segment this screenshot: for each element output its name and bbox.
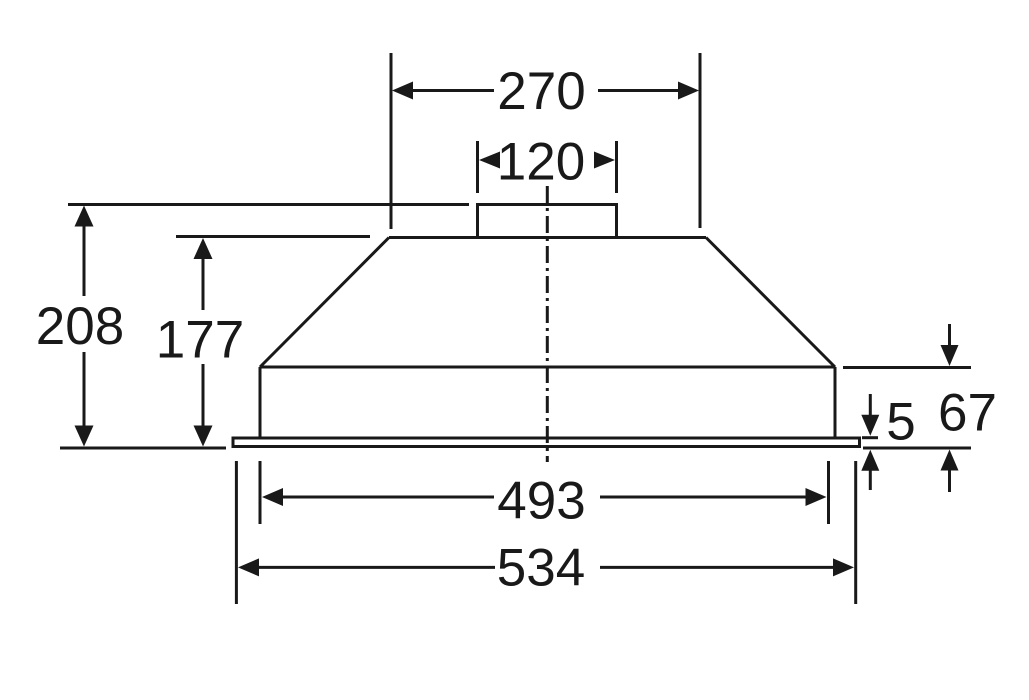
dim 208 shaft upper: [83, 224, 86, 296]
dim 177 shaft lower: [202, 364, 205, 428]
dim 534 line right segment: [600, 566, 837, 569]
dim 120 left extension line: [476, 141, 479, 193]
arrowhead 493 right: [806, 488, 827, 506]
center line: [546, 186, 549, 462]
dim 493 line left segment: [280, 496, 494, 499]
svg-text:120: 120: [497, 133, 585, 192]
hood top edge: [389, 236, 706, 239]
dim 177 shaft upper: [202, 258, 205, 310]
arrowhead 270 left: [392, 82, 413, 100]
arrowhead 5 up: [861, 450, 879, 471]
dim 5 upper arrow shaft: [869, 394, 872, 417]
arrowhead 493 left: [262, 488, 283, 506]
arrowhead 177 top: [194, 238, 213, 259]
arrowhead 67 down: [941, 345, 959, 366]
dim 534 line left segment: [256, 566, 495, 569]
arrowhead 67 up: [941, 450, 959, 471]
arrowhead 534 left: [238, 558, 259, 576]
svg-text:5: 5: [886, 392, 915, 451]
dim 177 top extension line: [176, 235, 370, 238]
duct rectangle on top of hood: [478, 205, 617, 238]
svg-text:67: 67: [938, 383, 997, 442]
dim 67 bottom extension line: [863, 447, 971, 450]
svg-text:270: 270: [497, 62, 585, 121]
bottom plate: [233, 438, 860, 447]
arrowhead 208 bottom: [75, 426, 94, 447]
dim 493 right extension line: [827, 461, 830, 524]
hood shoulder line: [260, 366, 835, 369]
dim 270 line left segment: [409, 89, 494, 92]
dim 534 right extension line: [854, 461, 857, 604]
dim 67 upper arrow shaft: [948, 324, 951, 348]
svg-text:208: 208: [36, 297, 124, 356]
arrowhead 120 left: [479, 152, 500, 169]
dim 67 top extension line: [843, 366, 971, 369]
arrowhead 177 bottom: [194, 426, 213, 447]
arrowhead 120 right: [594, 152, 615, 169]
dim 5 lower arrow shaft: [869, 469, 872, 490]
dim 534 left extension line: [235, 461, 238, 604]
dim 493 left extension line: [259, 461, 262, 524]
hood left side: [259, 367, 262, 437]
dim 270 right extension line: [699, 53, 702, 228]
svg-text:493: 493: [497, 472, 585, 531]
dim 5 tick line: [862, 436, 878, 439]
dim 270 line right segment: [598, 89, 682, 92]
arrowhead 208 top: [75, 206, 94, 227]
hood right side: [834, 367, 837, 437]
arrowhead 534 right: [833, 558, 854, 576]
hood left slope: [260, 238, 389, 368]
dim 208 top extension line: [68, 203, 469, 206]
dim 270 left extension line: [390, 53, 393, 229]
dim 208/177 bottom reference line: [60, 447, 226, 450]
dim 120 right extension line: [615, 141, 618, 193]
hood right slope: [706, 238, 835, 368]
svg-text:177: 177: [156, 310, 244, 369]
dim 208 shaft lower: [83, 352, 86, 428]
arrowhead 270 right: [678, 82, 699, 100]
svg-text:534: 534: [497, 539, 585, 598]
arrowhead 5 down: [861, 415, 879, 436]
dim 493 line right segment: [600, 496, 810, 499]
dim 67 lower arrow shaft: [948, 468, 951, 492]
